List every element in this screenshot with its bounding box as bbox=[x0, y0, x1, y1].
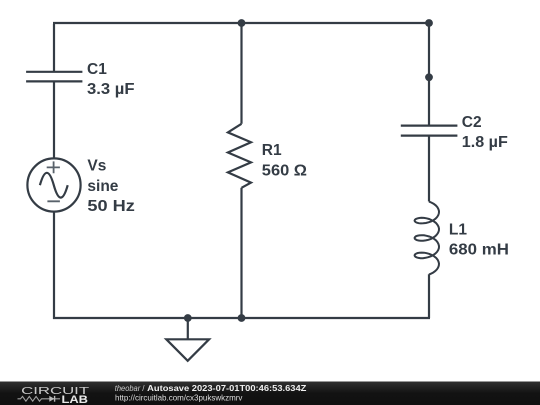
svg-text:C1: C1 bbox=[87, 61, 107, 78]
svg-text:R1: R1 bbox=[262, 142, 282, 159]
svg-text:3.3 µF: 3.3 µF bbox=[87, 81, 135, 98]
svg-text:560 Ω: 560 Ω bbox=[262, 162, 307, 179]
svg-text:sine: sine bbox=[87, 178, 118, 195]
svg-text:Vs: Vs bbox=[87, 157, 106, 174]
svg-text:Autosave 2023-07-01T00:46:53.6: Autosave 2023-07-01T00:46:53.634Z bbox=[147, 384, 306, 393]
svg-text:http://circuitlab.com/cx3puksw: http://circuitlab.com/cx3pukswkzmrv bbox=[115, 394, 243, 403]
svg-text:LAB: LAB bbox=[62, 394, 89, 405]
svg-text:C2: C2 bbox=[462, 114, 482, 131]
svg-text:L1: L1 bbox=[449, 221, 467, 238]
svg-text:50 Hz: 50 Hz bbox=[87, 198, 135, 215]
svg-text:680 mH: 680 mH bbox=[449, 241, 509, 258]
svg-text:theobar: theobar bbox=[115, 384, 141, 393]
svg-text:1.8 µF: 1.8 µF bbox=[462, 134, 508, 151]
